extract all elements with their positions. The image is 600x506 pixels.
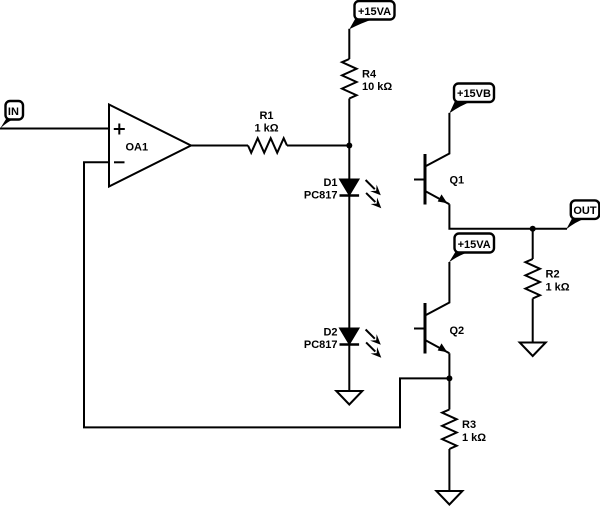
light arrows D1 [366, 180, 382, 208]
resistor R3 [442, 410, 486, 450]
svg-text:R3: R3 [462, 419, 476, 431]
wire Q2 emitter to junction [448, 353, 450, 378]
wire OUT node to R2 [532, 229, 534, 259]
wire +15VB to Q1 collector [426, 113, 449, 166]
junction node R1/R4/D1 [346, 143, 352, 149]
svg-text:+15VB: +15VB [457, 88, 491, 100]
resistor R2 [525, 259, 569, 299]
wire junction to R3 [448, 378, 450, 409]
wire R3 to ground [448, 449, 450, 491]
svg-text:+15VA: +15VA [458, 239, 491, 251]
power flag +15VA (top) [349, 1, 394, 29]
node flag IN [0, 101, 23, 128]
wire +15VA to R4 [348, 29, 350, 59]
resistor R1 [248, 110, 287, 153]
ground (below R2) [520, 343, 546, 357]
svg-text:R1: R1 [259, 110, 273, 122]
svg-text:1 kΩ: 1 kΩ [462, 432, 486, 444]
svg-text:IN: IN [8, 106, 19, 118]
junction node Q2 emitter / R3 / feedback [446, 375, 452, 381]
svg-text:Q2: Q2 [450, 325, 465, 337]
svg-text:OUT: OUT [573, 205, 597, 217]
svg-text:D1: D1 [323, 177, 337, 189]
light arrows D2 [366, 330, 382, 358]
svg-text:PC817: PC817 [304, 339, 338, 351]
op-amp OA1 [109, 105, 191, 187]
node flag OUT [566, 200, 599, 229]
wire R1 to node [287, 145, 349, 147]
LED D1 (PC817) [304, 177, 359, 202]
svg-text:PC817: PC817 [304, 190, 338, 202]
svg-text:D2: D2 [323, 326, 337, 338]
ground (below D2) [336, 391, 362, 405]
wire Q1 emitter to OUT node [449, 204, 567, 228]
power flag +15VA (at Q2) [449, 234, 494, 263]
wire +15VA to Q2 collector [426, 262, 449, 315]
wire D1 to D2 [348, 196, 350, 329]
svg-text:10 kΩ: 10 kΩ [362, 81, 392, 93]
svg-text:1 kΩ: 1 kΩ [254, 123, 278, 135]
wire IN to op-amp non-inverting input [0, 128, 109, 130]
svg-text:OA1: OA1 [126, 142, 149, 154]
wire R4 to D1 [348, 99, 350, 180]
transistor Q2 [414, 303, 464, 354]
feedback wire to op-amp inverting input [84, 162, 449, 427]
svg-text:1 kΩ: 1 kΩ [546, 281, 570, 293]
svg-text:+15VA: +15VA [358, 6, 391, 18]
ground (below R3) [436, 491, 462, 505]
resistor R4 [342, 59, 392, 99]
svg-text:Q1: Q1 [450, 175, 465, 187]
junction node OUT [530, 226, 536, 232]
wire op-amp output to R1 [191, 145, 248, 147]
wire D2 to ground [348, 345, 350, 392]
svg-text:R4: R4 [362, 69, 377, 81]
power flag +15VB [449, 84, 494, 114]
LED D2 (PC817) [304, 326, 359, 351]
svg-text:R2: R2 [546, 269, 560, 281]
wire R2 to ground [532, 299, 534, 343]
transistor Q1 [414, 154, 464, 205]
